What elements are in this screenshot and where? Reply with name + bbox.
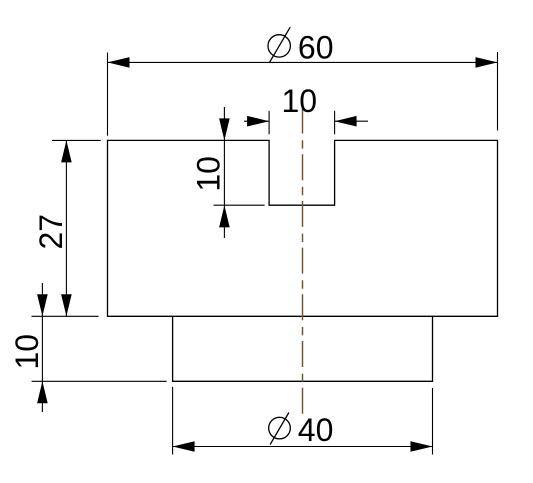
slot depth 10 arrow down: [219, 118, 230, 140]
height 27 extension line bottom: [32, 315, 99, 317]
slot width 10 dimension line right tail: [335, 120, 368, 122]
dimension d40 diameter symbol: [269, 413, 291, 445]
slot width 10 arrow right: [335, 116, 357, 127]
height 27 dimension line: [65, 140, 67, 316]
boss height 10 arrow up: [37, 381, 48, 403]
svg-text:10: 10: [9, 334, 45, 370]
dimension d40 extension line left: [172, 387, 174, 455]
slot depth 10 extension line: [214, 204, 265, 206]
svg-text:10: 10: [282, 83, 318, 119]
boss height 10 arrow down: [37, 294, 48, 316]
slot width 10 arrow left: [247, 116, 269, 127]
svg-text:27: 27: [33, 214, 69, 250]
boss height 10 dimension line: [41, 283, 43, 412]
height 27 arrow top: [61, 140, 72, 162]
slot width 10 dimension line left tail: [244, 120, 269, 122]
height 27 extension line top: [52, 139, 101, 141]
svg-text:60: 60: [298, 29, 334, 65]
slot depth 10 dimension line: [223, 107, 225, 238]
boss outline (lower step): [173, 316, 433, 381]
boss height 10 extension line: [32, 380, 167, 382]
svg-text:40: 40: [298, 412, 334, 448]
height 27 arrow bottom: [61, 294, 72, 316]
main body outline with slot: [108, 140, 498, 316]
dimension d60 extension line left: [107, 53, 109, 136]
dimension d60 arrow left: [108, 57, 130, 68]
dimension d60 arrow right: [476, 57, 498, 68]
dimension d60 extension line right: [497, 52, 499, 131]
dimension d40 arrow left: [173, 441, 195, 452]
dimension d60 diameter symbol: [268, 27, 290, 63]
slot width 10 extension line right: [334, 111, 336, 135]
dimension d60 line: [108, 61, 498, 63]
svg-text:10: 10: [191, 156, 227, 192]
dimension d40 extension line right: [432, 388, 434, 455]
dimension d40 line: [173, 446, 433, 448]
dimension d40 arrow right: [411, 441, 433, 452]
centerline: [302, 108, 304, 414]
slot depth 10 arrow up: [219, 205, 230, 227]
slot width 10 extension line left: [268, 111, 270, 135]
